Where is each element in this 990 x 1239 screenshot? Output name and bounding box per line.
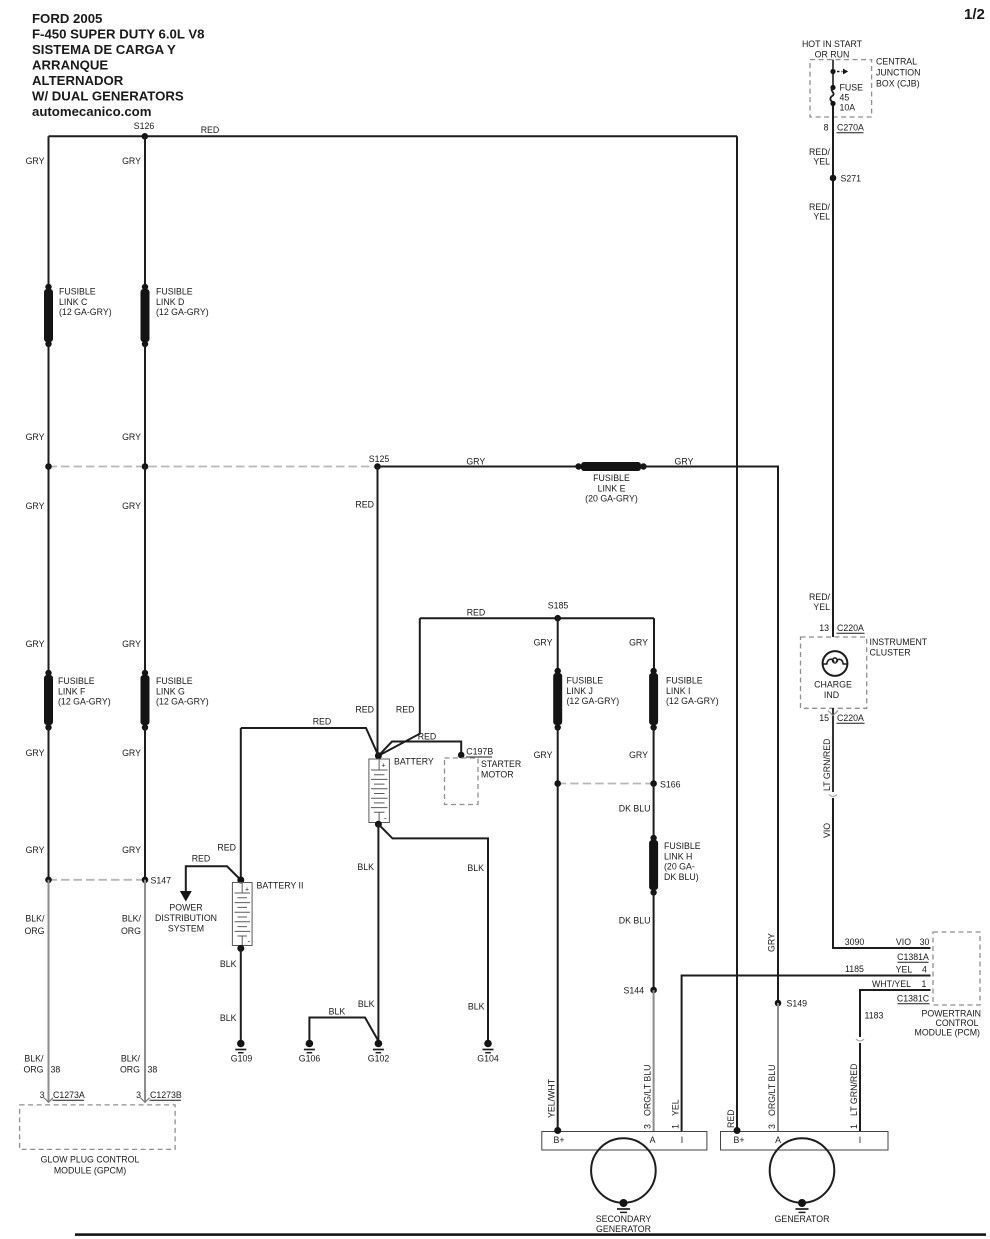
svg-text:FUSIBLE: FUSIBLE: [666, 676, 703, 686]
svg-text:GENERATOR: GENERATOR: [775, 1214, 830, 1224]
ground G109: [231, 1040, 253, 1064]
wire GRY right leg down to link I: [653, 618, 655, 671]
svg-text:BLK/: BLK/: [122, 914, 142, 924]
svg-text:RED: RED: [726, 1109, 736, 1128]
svg-text:(20 GA-: (20 GA-: [664, 862, 695, 872]
svg-text:BLK/: BLK/: [25, 914, 45, 924]
wire RED S185 left leg to battery +: [378, 618, 419, 756]
svg-text:LINK F: LINK F: [58, 686, 86, 696]
central junction box (CJB): [810, 60, 872, 117]
svg-text:INSTRUMENT: INSTRUMENT: [870, 637, 928, 647]
svg-text:4: 4: [922, 965, 927, 975]
svg-text:LINK J: LINK J: [567, 686, 593, 696]
glow plug control module (GPCM) box: [20, 1105, 176, 1150]
svg-text:POWER: POWER: [169, 903, 202, 913]
svg-text:GRY: GRY: [767, 933, 777, 952]
svg-text:YEL: YEL: [671, 1099, 681, 1116]
svg-text:POWERTRAIN: POWERTRAIN: [922, 1009, 981, 1019]
svg-text:GRY: GRY: [122, 748, 141, 758]
svg-text:RED: RED: [396, 705, 415, 715]
fusible link I: [649, 668, 719, 731]
starter motor box: [445, 758, 479, 805]
svg-text:WHT/YEL: WHT/YEL: [872, 979, 911, 989]
svg-text:LINK D: LINK D: [156, 297, 184, 307]
svg-text:(20 GA-GRY): (20 GA-GRY): [585, 494, 638, 504]
svg-text:ORG/LT BLU: ORG/LT BLU: [767, 1065, 777, 1117]
svg-text:automecanico.com: automecanico.com: [32, 104, 151, 119]
svg-text:GRY: GRY: [534, 638, 553, 648]
wire GRY link E right then down to S149: [644, 467, 779, 1004]
svg-text:RED: RED: [201, 125, 220, 135]
fusible link D: [141, 284, 209, 347]
wire YEL PCM pin 4 to secondary generator I: [682, 976, 931, 1132]
svg-text:FUSIBLE: FUSIBLE: [58, 676, 95, 686]
svg-text:SECONDARY: SECONDARY: [596, 1214, 652, 1224]
svg-text:F-450 SUPER DUTY 6.0L V8: F-450 SUPER DUTY 6.0L V8: [32, 27, 204, 42]
svg-text:CENTRAL: CENTRAL: [876, 57, 917, 67]
svg-text:C1273A: C1273A: [53, 1090, 85, 1100]
svg-text:BLK: BLK: [329, 1007, 346, 1017]
svg-text:S144: S144: [623, 986, 644, 996]
wire VIO to PCM pin 30: [833, 798, 931, 948]
fusible link F: [44, 670, 111, 731]
fusible link E: [575, 462, 646, 504]
wire GRY S185 down to link J: [557, 618, 559, 671]
svg-text:LINK H: LINK H: [664, 851, 692, 861]
svg-text:ORG: ORG: [121, 926, 141, 936]
splice bus dashed to S125: [49, 466, 378, 468]
svg-text:1: 1: [671, 1124, 681, 1129]
svg-text:BLK: BLK: [220, 1013, 237, 1023]
svg-text:3: 3: [643, 1124, 653, 1129]
fusible link C: [44, 284, 112, 347]
svg-text:MOTOR: MOTOR: [481, 769, 514, 779]
fusible link H: [649, 835, 701, 896]
svg-text:I: I: [859, 1135, 861, 1145]
svg-text:RED: RED: [355, 705, 374, 715]
svg-text:I: I: [681, 1135, 683, 1145]
svg-text:BLK: BLK: [468, 1002, 485, 1012]
wire GRY S125 to fusible link E: [378, 466, 580, 468]
ground G102: [368, 1040, 390, 1064]
wire RED S125 down to battery: [377, 467, 379, 756]
svg-text:GRY: GRY: [122, 501, 141, 511]
svg-text:S126: S126: [134, 121, 155, 131]
svg-text:W/ DUAL GENERATORS: W/ DUAL GENERATORS: [32, 89, 184, 104]
node S271: [830, 175, 837, 182]
node S126: [142, 133, 149, 140]
wire GRY second column top: [144, 136, 146, 286]
svg-text:GRY: GRY: [629, 638, 648, 648]
node S144: [650, 987, 657, 994]
svg-text:LT GRN/RED: LT GRN/RED: [849, 1064, 859, 1116]
svg-text:1: 1: [849, 1124, 859, 1129]
svg-text:(12 GA-GRY): (12 GA-GRY): [59, 307, 112, 317]
svg-text:BLK: BLK: [357, 862, 374, 872]
svg-text:CHARGE: CHARGE: [814, 680, 852, 690]
svg-text:C1381C: C1381C: [897, 994, 930, 1004]
svg-text:RED: RED: [355, 500, 374, 510]
svg-text:S125: S125: [369, 454, 390, 464]
svg-text:DK BLU): DK BLU): [664, 872, 699, 882]
battery: [369, 752, 434, 827]
svg-text:13: 13: [819, 623, 829, 633]
svg-text:S185: S185: [548, 601, 569, 611]
svg-text:RED/: RED/: [809, 147, 831, 157]
svg-text:+: +: [245, 887, 249, 894]
svg-text:STARTER: STARTER: [481, 759, 521, 769]
svg-text:CLUSTER: CLUSTER: [870, 648, 911, 658]
svg-text:3090: 3090: [845, 937, 865, 947]
svg-text:RED: RED: [418, 732, 437, 742]
svg-text:C1381A: C1381A: [897, 952, 929, 962]
secondary generator: [542, 1127, 707, 1234]
svg-text:1/2: 1/2: [964, 6, 985, 23]
svg-text:(12 GA-GRY): (12 GA-GRY): [58, 697, 111, 707]
svg-text:BLK: BLK: [220, 959, 237, 969]
svg-text:BATTERY: BATTERY: [394, 757, 434, 767]
wire GRY col2 junction to link G: [144, 467, 146, 674]
wire GRY left column top: [48, 136, 50, 286]
powertrain control module (PCM) box: [933, 932, 980, 1005]
svg-text:G102: G102: [368, 1054, 390, 1064]
svg-text:15: 15: [819, 713, 829, 723]
svg-text:(12 GA-GRY): (12 GA-GRY): [156, 307, 209, 317]
node S149: [775, 1000, 782, 1007]
svg-text:(12 GA-GRY): (12 GA-GRY): [156, 697, 209, 707]
inline connector on cluster wire: [829, 795, 837, 797]
svg-text:S149: S149: [787, 999, 808, 1009]
connector C197B: [458, 752, 465, 759]
svg-text:B+: B+: [553, 1135, 564, 1145]
svg-text:GRY: GRY: [122, 432, 141, 442]
svg-text:ORG: ORG: [23, 1065, 43, 1075]
svg-text:(12 GA-GRY): (12 GA-GRY): [567, 696, 620, 706]
svg-text:G106: G106: [299, 1054, 321, 1064]
svg-text:1185: 1185: [845, 964, 864, 974]
svg-text:YEL: YEL: [813, 602, 830, 612]
svg-text:GRY: GRY: [675, 457, 694, 467]
connector V marks at GPCM: [44, 1098, 150, 1103]
svg-text:MODULE (GPCM): MODULE (GPCM): [54, 1166, 126, 1176]
svg-text:GLOW PLUG CONTROL: GLOW PLUG CONTROL: [41, 1155, 140, 1165]
svg-text:RED: RED: [467, 608, 486, 618]
wire GRY link J to S166 row: [557, 728, 559, 784]
wire BLK battery - branch to G104: [378, 824, 488, 1040]
fusible link J: [553, 668, 619, 731]
node S147 splice dashed: [49, 879, 146, 881]
wire RED battery II to power distribution: [186, 866, 241, 891]
svg-text:1183: 1183: [865, 1011, 884, 1021]
svg-text:C197B: C197B: [466, 747, 493, 757]
svg-text:GENERATOR: GENERATOR: [596, 1224, 651, 1234]
wire DK BLU S166 down to link H: [653, 784, 655, 839]
svg-text:GRY: GRY: [26, 432, 45, 442]
svg-text:FUSIBLE: FUSIBLE: [567, 676, 604, 686]
svg-text:FUSIBLE: FUSIBLE: [156, 676, 193, 686]
wire RED down to generator B+: [736, 136, 738, 1131]
svg-text:BLK: BLK: [467, 863, 484, 873]
svg-text:FUSIBLE: FUSIBLE: [593, 473, 630, 483]
ground G104: [477, 1040, 499, 1064]
wire BLK battery - to G102: [377, 824, 379, 1040]
wire BLK/ORG col2 S147 to GPCM: [144, 880, 146, 1102]
wire RED/YEL CJB down to instrument cluster pin 13: [832, 106, 834, 638]
svg-text:C1273B: C1273B: [150, 1090, 182, 1100]
svg-text:S166: S166: [660, 780, 681, 790]
battery II: [232, 877, 303, 952]
arrow power distribution system: [180, 891, 192, 902]
wire RED top horizontal S126 net: [49, 135, 738, 137]
svg-text:HOT IN START: HOT IN START: [802, 39, 863, 49]
svg-text:ORG: ORG: [24, 926, 44, 936]
svg-text:45: 45: [840, 93, 850, 103]
svg-text:S271: S271: [841, 174, 862, 184]
svg-text:FUSE: FUSE: [840, 83, 864, 93]
svg-text:YEL: YEL: [813, 157, 830, 167]
svg-text:BATTERY II: BATTERY II: [257, 881, 304, 891]
svg-text:SYSTEM: SYSTEM: [168, 924, 204, 934]
svg-text:GRY: GRY: [629, 750, 648, 760]
instrument cluster box: [801, 637, 867, 708]
svg-text:(12 GA-GRY): (12 GA-GRY): [666, 696, 719, 706]
node S185: [554, 615, 561, 622]
svg-text:GRY: GRY: [122, 845, 141, 855]
svg-text:YEL: YEL: [813, 212, 830, 222]
svg-text:GRY: GRY: [26, 639, 45, 649]
wire RED S185 horizontal: [420, 617, 654, 619]
wire GRY link I to S166: [653, 728, 655, 784]
svg-text:GRY: GRY: [26, 501, 45, 511]
svg-text:BLK/: BLK/: [24, 1054, 44, 1064]
svg-text:GRY: GRY: [122, 156, 141, 166]
svg-text:10A: 10A: [840, 103, 856, 113]
wire GRY col1 link C to junction: [48, 344, 50, 467]
svg-text:FORD 2005: FORD 2005: [32, 11, 102, 26]
svg-text:G109: G109: [231, 1054, 253, 1064]
svg-text:GRY: GRY: [26, 748, 45, 758]
wire YEL/WHT S166 down to secondary generator B+: [557, 784, 559, 1132]
wire GRY col1 junction to link F: [48, 467, 50, 674]
svg-text:BLK/: BLK/: [121, 1054, 141, 1064]
wire BLK G106 to G102: [309, 1018, 378, 1042]
wire DK BLU link H to S144: [653, 893, 655, 991]
svg-text:RED: RED: [192, 854, 211, 864]
svg-text:30: 30: [920, 937, 930, 947]
svg-text:ORG: ORG: [120, 1065, 140, 1075]
svg-text:BOX (CJB): BOX (CJB): [876, 79, 920, 89]
wire GRY col2 link G to S147: [144, 728, 146, 880]
svg-text:LINK C: LINK C: [59, 297, 88, 307]
svg-text:ARRANQUE: ARRANQUE: [32, 58, 108, 73]
generator: [721, 1127, 889, 1224]
svg-text:GRY: GRY: [534, 750, 553, 760]
svg-text:-: -: [384, 814, 387, 823]
wire GRY col1 link F to S147: [48, 728, 50, 880]
svg-text:RED/: RED/: [809, 592, 831, 602]
svg-text:C220A: C220A: [837, 623, 864, 633]
ground G106: [299, 1040, 321, 1064]
svg-text:CONTROL: CONTROL: [935, 1018, 978, 1028]
svg-text:3: 3: [40, 1090, 45, 1100]
svg-text:LINK E: LINK E: [598, 483, 626, 493]
svg-text:OR RUN: OR RUN: [815, 50, 850, 60]
battery feed wires to battery + terminal: [378, 742, 461, 756]
wire RED to battery II: [240, 728, 242, 880]
inline connector 1183 wire: [856, 1039, 864, 1041]
svg-text:B+: B+: [733, 1135, 744, 1145]
svg-text:GRY: GRY: [466, 457, 485, 467]
svg-text:FUSIBLE: FUSIBLE: [59, 287, 96, 297]
svg-text:FUSIBLE: FUSIBLE: [156, 287, 193, 297]
svg-text:1: 1: [922, 979, 927, 989]
switch in CJB: [832, 60, 834, 69]
pin 15 connector C220A: [832, 708, 834, 792]
fuse 45 10A: [832, 74, 834, 86]
svg-text:FUSIBLE: FUSIBLE: [664, 841, 701, 851]
svg-text:DK BLU: DK BLU: [619, 916, 651, 926]
bottom rule: [75, 1233, 986, 1236]
svg-text:C220A: C220A: [837, 713, 864, 723]
svg-text:LT GRN/RED: LT GRN/RED: [822, 739, 832, 791]
svg-text:RED: RED: [313, 717, 332, 727]
svg-text:-: -: [248, 937, 251, 946]
svg-text:8: 8: [824, 123, 829, 133]
svg-text:VIO: VIO: [822, 823, 832, 838]
wire ORG/LT BLU S144 to secondary generator A: [653, 990, 655, 1132]
svg-text:3: 3: [767, 1124, 777, 1129]
svg-text:LINK G: LINK G: [156, 686, 185, 696]
svg-text:MODULE (PCM): MODULE (PCM): [915, 1028, 981, 1038]
svg-text:GRY: GRY: [26, 845, 45, 855]
svg-text:YEL: YEL: [896, 965, 913, 975]
svg-text:BLK: BLK: [358, 999, 375, 1009]
svg-text:GRY: GRY: [122, 639, 141, 649]
wire ORG/LT BLU S149 to generator A: [777, 1003, 779, 1132]
svg-text:VIO: VIO: [896, 937, 911, 947]
wire GRY col2 link D to junction: [144, 344, 146, 467]
svg-text:SISTEMA DE CARGA Y: SISTEMA DE CARGA Y: [32, 42, 176, 57]
wire BLK/ORG col1 S147 to GPCM: [48, 880, 50, 1102]
svg-text:GRY: GRY: [26, 156, 45, 166]
fusible link G: [141, 670, 209, 731]
wire WHT/YEL PCM pin 1: [860, 990, 931, 1037]
svg-text:A: A: [650, 1135, 656, 1145]
svg-text:RED: RED: [217, 843, 236, 853]
svg-text:+: +: [382, 763, 386, 770]
wire LT GRN/RED to generator I: [859, 1043, 861, 1132]
svg-text:RED/: RED/: [809, 202, 831, 212]
svg-text:ORG/LT BLU: ORG/LT BLU: [643, 1065, 653, 1117]
svg-text:DISTRIBUTION: DISTRIBUTION: [155, 913, 217, 923]
node S166 splice dashed: [558, 783, 654, 785]
svg-text:JUNCTION: JUNCTION: [876, 68, 920, 78]
svg-text:LINK I: LINK I: [666, 686, 690, 696]
svg-text:G104: G104: [477, 1054, 499, 1064]
svg-text:C270A: C270A: [837, 123, 864, 133]
svg-text:IND: IND: [824, 690, 839, 700]
svg-text:38: 38: [51, 1065, 61, 1075]
charge indicator lamp: [814, 651, 852, 700]
node S125: [374, 463, 381, 470]
title block: [32, 11, 204, 119]
svg-text:S147: S147: [151, 876, 172, 886]
wire BLK battery II to G109: [240, 948, 242, 1040]
svg-text:ALTERNADOR: ALTERNADOR: [32, 73, 124, 88]
svg-text:YEL/WHT: YEL/WHT: [547, 1078, 557, 1118]
svg-text:A: A: [775, 1135, 781, 1145]
svg-text:3: 3: [136, 1090, 141, 1100]
svg-text:DK BLU: DK BLU: [619, 804, 651, 814]
svg-text:38: 38: [148, 1065, 158, 1075]
